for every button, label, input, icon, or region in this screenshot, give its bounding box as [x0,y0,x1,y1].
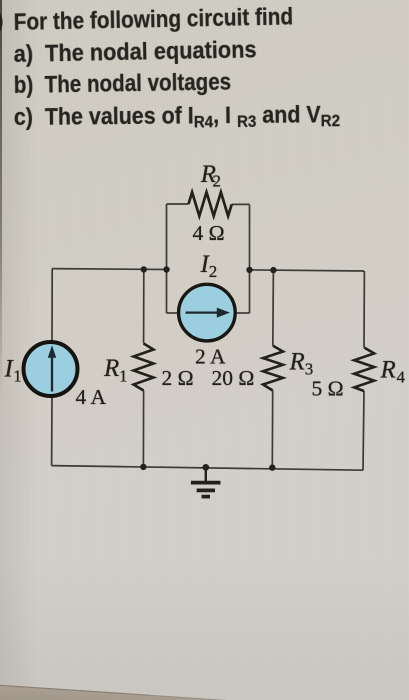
node dot A (R1 top) [141,266,147,272]
svg-text:R: R [380,357,396,384]
svg-text:R: R [103,355,119,382]
ground symbol [205,467,207,481]
node dot C (R2 loop right top) [246,267,252,273]
svg-text:1: 1 [119,366,128,385]
svg-text:2: 2 [209,262,218,281]
photo artifact: dark strip left edge [0,0,2,400]
wire: right node rail (top middle-right horizontal) [250,270,365,271]
wire: R4 branch verticals [363,271,365,348]
wire: R2 top rail right lead [232,203,250,205]
current source I1 (4 A) circle [24,342,78,396]
svg-text:4 A: 4 A [76,385,107,409]
resistor R3 (20 ohm) zigzag [263,346,283,391]
wire: left branch vertical above I1 source [51,269,53,341]
node dot F (ground junction) [202,464,209,471]
current source I2 leads [167,312,178,314]
photo artifact: partial bullet at left edge [0,5,1,39]
svg-text:1: 1 [13,366,21,385]
current source I1 arrow [51,357,53,392]
current source I2 arrow [186,311,219,313]
node dot G (R3 bottom) [269,464,275,470]
problem statement text [13,3,293,37]
svg-text:2 A: 2 A [195,345,226,369]
svg-text:4 Ω: 4 Ω [193,221,225,245]
wire: left node rail (top middle-left horizontal) [52,268,167,271]
svg-text:20 Ω: 20 Ω [212,366,255,390]
wire: R3 branch verticals [272,270,275,346]
svg-text:5 Ω: 5 Ω [312,377,344,401]
wire: bottom rail [52,466,363,471]
current source I2 (2 A) circle [179,284,236,341]
svg-text:2 Ω: 2 Ω [162,366,194,390]
node dot D (R3 top) [270,267,276,273]
wire: R2 loop right vertical [249,204,251,313]
wire: R2 loop left vertical [166,204,168,313]
resistor R1 (2 ohm) zigzag [134,344,154,391]
svg-text:2: 2 [213,171,222,190]
wire: R1 branch verticals [143,269,145,343]
wire: left branch vertical below I1 source [51,397,53,466]
node dot B (R2 loop left top) [163,266,169,272]
svg-text:R: R [289,349,305,376]
resistor R4 (5 ohm) zigzag [354,348,374,391]
node dot E (R1 bottom) [140,464,146,470]
wire: R2 top rail left lead [167,203,189,205]
svg-text:4: 4 [397,368,406,387]
resistor R2 (4 ohm) zigzag [189,192,232,216]
